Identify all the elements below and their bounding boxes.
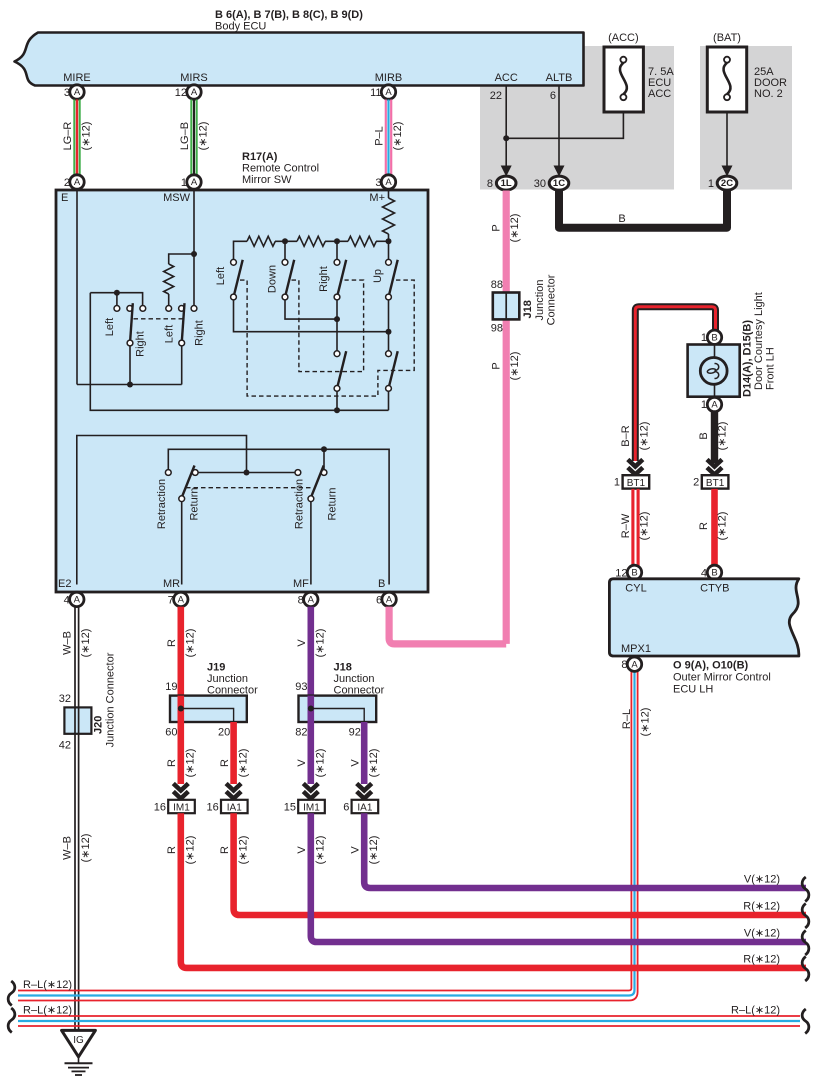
svg-text:IG: IG	[73, 1035, 84, 1046]
dashed linkage Left-Up-lower switch 2	[240, 280, 414, 396]
svg-text:BT1: BT1	[627, 478, 646, 489]
arrow into 16 IA1	[207, 784, 248, 814]
svg-text:16: 16	[207, 802, 219, 814]
svg-text:92: 92	[349, 726, 361, 738]
retraction inner contact line	[192, 470, 300, 476]
svg-text:IM1: IM1	[173, 803, 190, 814]
svg-text:Junction Connector: Junction Connector	[105, 652, 117, 747]
svg-text:1: 1	[614, 477, 620, 489]
brace right wire V1	[802, 877, 809, 902]
svg-text:R–L(∗12): R–L(∗12)	[23, 1005, 72, 1017]
pin 1 connector B courtesy light top	[701, 330, 722, 344]
retraction switch MR	[156, 466, 201, 530]
svg-text:V(∗12): V(∗12)	[744, 873, 780, 885]
svg-text:B: B	[631, 568, 637, 579]
switch Left (mirror select group)	[215, 259, 243, 300]
svg-text:2: 2	[693, 477, 699, 489]
wire R IM1 down to horizontal	[166, 813, 806, 968]
svg-text:Junction: Junction	[334, 673, 375, 685]
svg-text:(∗12): (∗12)	[80, 834, 92, 863]
wire P pink B pin to P vertical	[389, 607, 506, 644]
svg-text:(∗12): (∗12)	[185, 629, 197, 658]
wire from fuse 7.5A to ACC line	[506, 112, 623, 138]
svg-text:98: 98	[491, 323, 503, 335]
svg-text:LG–R: LG–R	[62, 122, 74, 151]
pin 1 connector A courtesy light bottom	[701, 397, 722, 411]
svg-text:8: 8	[487, 178, 493, 190]
junction connector J19	[165, 662, 258, 739]
switch Down	[267, 259, 295, 300]
svg-text:Junction: Junction	[534, 280, 546, 321]
wire R BT1 to CTYB	[698, 489, 729, 566]
fuse 25A DOOR NO.2	[707, 32, 787, 112]
arrow into 6 IA1	[343, 784, 378, 814]
svg-text:B: B	[618, 213, 625, 225]
pin 3 connector A MIRE	[64, 85, 84, 99]
svg-text:R(∗12): R(∗12)	[743, 953, 780, 965]
svg-text:20: 20	[218, 726, 230, 738]
svg-text:A: A	[74, 595, 81, 606]
arrow into 2 BT1	[693, 460, 728, 489]
svg-text:A: A	[308, 595, 315, 606]
svg-text:MSW: MSW	[163, 192, 191, 204]
svg-text:J18: J18	[522, 300, 534, 318]
svg-text:J20: J20	[93, 716, 105, 734]
svg-text:32: 32	[59, 693, 71, 705]
wire Down pivot to lower switch 1	[285, 300, 340, 351]
switch Right (up-down group)	[318, 259, 346, 300]
svg-text:Outer Mirror Control: Outer Mirror Control	[673, 672, 771, 684]
wire R MR to J19	[166, 607, 197, 696]
svg-text:16: 16	[154, 802, 166, 814]
resistor M+	[383, 190, 395, 242]
svg-text:(∗12): (∗12)	[315, 749, 327, 778]
svg-text:NO. 2: NO. 2	[754, 88, 783, 100]
svg-text:A: A	[191, 177, 198, 188]
svg-text:P–L: P–L	[374, 126, 386, 146]
wire V J18-82 to IM1	[296, 722, 327, 784]
brace right wire R1	[802, 904, 809, 929]
svg-text:V: V	[349, 846, 361, 854]
svg-text:R17(A): R17(A)	[242, 151, 278, 163]
svg-text:R: R	[698, 522, 710, 530]
svg-text:MR: MR	[163, 578, 180, 590]
pin 8 connector A MF	[293, 578, 318, 607]
node MIRB	[375, 72, 403, 84]
wire B black courtesy light to BT1	[698, 412, 729, 463]
svg-text:(∗12): (∗12)	[81, 122, 93, 151]
svg-text:(∗12): (∗12)	[198, 122, 210, 151]
svg-text:42: 42	[59, 740, 71, 752]
svg-text:Right: Right	[135, 331, 147, 357]
svg-text:2C: 2C	[721, 178, 733, 189]
svg-text:ALTB: ALTB	[546, 72, 573, 84]
svg-text:Right: Right	[318, 266, 330, 292]
svg-text:ACC: ACC	[495, 72, 518, 84]
node MIRS	[180, 72, 208, 84]
pin 1 connector A MSW	[163, 175, 201, 204]
node ACC	[495, 72, 518, 84]
svg-text:Connector: Connector	[546, 274, 558, 325]
svg-text:(∗12): (∗12)	[368, 836, 380, 865]
wire MR pivot to pin	[181, 502, 183, 585]
svg-text:D14(A), D15(B): D14(A), D15(B)	[742, 320, 754, 397]
wire V IM1 down to horizontal	[296, 813, 806, 942]
svg-text:B: B	[711, 332, 717, 343]
wire V IA1 down to horizontal	[349, 813, 806, 888]
svg-text:R: R	[166, 846, 178, 854]
svg-text:12: 12	[175, 87, 187, 99]
node ALTB	[546, 72, 573, 84]
outer mirror control ECU MPX1 block	[609, 579, 798, 656]
pin 11 connector A MIRB	[370, 85, 396, 99]
svg-text:MIRE: MIRE	[63, 72, 91, 84]
pin 4 connector B CTYB	[701, 565, 722, 579]
svg-text:(∗12): (∗12)	[509, 352, 521, 381]
svg-text:(∗12): (∗12)	[640, 708, 652, 737]
wire B-R courtesy light to BT1	[620, 307, 716, 461]
retraction switch MF	[294, 466, 339, 530]
svg-text:Up: Up	[372, 269, 384, 283]
pin 4 connector A E2	[58, 578, 84, 607]
pin 12 connector A MIRS	[175, 85, 201, 99]
svg-text:(∗12): (∗12)	[717, 512, 729, 541]
svg-text:E: E	[61, 192, 68, 204]
svg-text:Junction: Junction	[207, 673, 248, 685]
svg-text:MIRS: MIRS	[180, 72, 208, 84]
svg-text:11: 11	[370, 87, 381, 99]
svg-text:V(∗12): V(∗12)	[744, 927, 780, 939]
svg-text:ECU LH: ECU LH	[673, 684, 713, 696]
connector 30 1C	[534, 176, 569, 190]
svg-text:A: A	[385, 177, 392, 188]
svg-text:Right: Right	[194, 320, 206, 346]
svg-text:V: V	[296, 639, 308, 647]
svg-text:88: 88	[491, 279, 503, 291]
svg-text:B: B	[698, 432, 710, 439]
svg-text:1L: 1L	[501, 178, 512, 189]
svg-text:(BAT): (BAT)	[713, 32, 741, 44]
ground IG	[62, 1030, 96, 1075]
svg-text:R: R	[219, 846, 231, 854]
svg-text:O 9(A), O10(B): O 9(A), O10(B)	[673, 660, 749, 672]
svg-text:Mirror SW: Mirror SW	[242, 174, 292, 186]
brace right R-L group 2	[802, 1009, 809, 1034]
svg-text:R: R	[166, 759, 178, 767]
svg-text:IA1: IA1	[227, 803, 242, 814]
wire LG-B MIRS to mirror switch	[179, 100, 210, 175]
brace right wire V2	[802, 931, 809, 956]
svg-text:6: 6	[343, 802, 349, 814]
svg-text:Left: Left	[164, 325, 176, 343]
switch select 2 Left/Right	[164, 303, 206, 346]
resistor chain top	[234, 236, 389, 262]
svg-text:P: P	[490, 224, 502, 231]
svg-text:(∗12): (∗12)	[315, 629, 327, 658]
svg-text:(∗12): (∗12)	[185, 836, 197, 865]
junction connector J18	[295, 662, 384, 739]
svg-text:15: 15	[284, 802, 296, 814]
dashed linkage select switches	[134, 318, 184, 320]
arrow into 15 IM1	[284, 784, 325, 814]
svg-text:MF: MF	[293, 578, 309, 590]
wire select pivots to E bus	[77, 346, 182, 388]
svg-text:W–B: W–B	[62, 631, 74, 655]
svg-text:A: A	[191, 87, 198, 98]
svg-text:(∗12): (∗12)	[368, 749, 380, 778]
svg-text:W–B: W–B	[62, 836, 74, 860]
dashed linkage Down-Right-lower switch 1	[292, 280, 364, 372]
pin 6 wire ALTB into fuse block	[550, 86, 565, 177]
wire P from 1L to junction J18 small	[490, 191, 521, 644]
svg-text:B 6(A), B 7(B), B 8(C), B 9(D): B 6(A), B 7(B), B 8(C), B 9(D)	[215, 9, 363, 21]
svg-text:ACC: ACC	[648, 88, 671, 100]
junction dot on ACC line	[503, 135, 509, 141]
svg-text:Body ECU: Body ECU	[215, 21, 266, 33]
dashed linkage retraction switches	[186, 487, 311, 489]
connector 8 1L	[487, 176, 516, 190]
node MIRE	[63, 72, 91, 84]
lower switch 1	[334, 351, 346, 391]
svg-text:A: A	[386, 595, 393, 606]
wire R J19-20 to IA1	[219, 722, 250, 784]
pin 7 connector A MR	[163, 578, 188, 607]
fuse block gray area ACC	[480, 46, 674, 190]
lower switch 2	[386, 351, 398, 391]
svg-text:A: A	[711, 400, 718, 411]
svg-text:A: A	[74, 177, 81, 188]
wire R-L MPX1 to horizontal run	[18, 671, 652, 1000]
svg-text:30: 30	[534, 178, 546, 190]
wire lower switches to bus	[90, 293, 388, 414]
body ECU B 6(A), B 7(B), B 8(C), B 9(D)	[15, 9, 584, 86]
door courtesy light D14(A) D15(B) front LH	[688, 292, 777, 397]
junction connector J20	[59, 652, 117, 751]
pin 12 connector B CYL	[615, 565, 641, 579]
svg-text:MIRB: MIRB	[375, 72, 403, 84]
junction dots resistor chain	[282, 238, 392, 259]
svg-text:V: V	[349, 759, 361, 767]
arrow into 1 BT1	[614, 460, 649, 489]
svg-text:6: 6	[550, 90, 556, 102]
svg-text:(ACC): (ACC)	[608, 32, 639, 44]
svg-text:M+: M+	[369, 192, 385, 204]
fuse block gray area BAT	[700, 46, 792, 190]
svg-text:CTYB: CTYB	[700, 583, 729, 595]
wire R J19-60 to IM1	[166, 722, 197, 784]
wire V MF to J18	[296, 607, 327, 696]
svg-text:A: A	[178, 595, 185, 606]
svg-text:MPX1: MPX1	[621, 643, 651, 655]
wire B to retraction feed line	[165, 446, 389, 584]
svg-text:B–R: B–R	[620, 425, 632, 446]
svg-text:P: P	[490, 362, 502, 369]
svg-text:LG–B: LG–B	[179, 122, 191, 150]
left select switch bus	[90, 290, 142, 306]
svg-text:1C: 1C	[553, 178, 565, 189]
svg-text:B: B	[711, 568, 717, 579]
svg-text:Down: Down	[267, 265, 279, 293]
svg-text:A: A	[631, 659, 638, 670]
svg-text:(∗12): (∗12)	[639, 422, 651, 451]
svg-text:J18: J18	[334, 662, 352, 674]
svg-text:19: 19	[165, 681, 177, 693]
svg-text:A: A	[74, 87, 81, 98]
wire R IA1 down to horizontal	[219, 813, 806, 915]
svg-text:(∗12): (∗12)	[237, 836, 249, 865]
svg-text:IA1: IA1	[357, 803, 372, 814]
junction MSW branch	[191, 251, 197, 257]
svg-text:R–L(∗12): R–L(∗12)	[731, 1005, 780, 1017]
resistor MSW branch	[164, 254, 194, 306]
connector 1 2C	[708, 176, 737, 190]
brace right wire R2	[802, 957, 809, 982]
svg-text:Front LH: Front LH	[765, 347, 777, 390]
wire MSW internal	[193, 190, 195, 309]
wire LG-R MIRE to mirror switch	[62, 100, 93, 175]
svg-text:Remote Control: Remote Control	[242, 163, 319, 175]
svg-text:(∗12): (∗12)	[392, 122, 404, 151]
wire MF pivot to pin	[310, 502, 312, 585]
pin 8 connector A MPX1	[621, 657, 770, 696]
svg-text:Left: Left	[104, 318, 116, 336]
svg-text:60: 60	[165, 726, 177, 738]
brace left R-L group 1	[8, 981, 15, 1006]
brace left R-L group 2	[8, 1008, 15, 1033]
svg-text:R: R	[219, 759, 231, 767]
svg-text:82: 82	[295, 726, 307, 738]
svg-text:B: B	[378, 578, 385, 590]
svg-text:Return: Return	[327, 487, 339, 520]
svg-text:(∗12): (∗12)	[717, 422, 729, 451]
arrow into 16 IM1	[154, 784, 195, 814]
wire V J18-92 to IA1	[349, 722, 380, 784]
svg-text:Retraction: Retraction	[156, 479, 168, 529]
svg-text:R–L: R–L	[621, 709, 633, 729]
wire R-L bottom full width	[18, 1005, 800, 1027]
remote control mirror SW R17(A)	[56, 151, 428, 592]
fuse 7.5A ECU ACC	[604, 32, 674, 112]
svg-text:1: 1	[708, 178, 714, 190]
svg-text:Retraction: Retraction	[294, 479, 306, 529]
wire P-L MIRB to mirror switch	[374, 100, 405, 175]
wire E2 to retraction common	[77, 436, 247, 585]
svg-text:(∗12): (∗12)	[80, 629, 92, 658]
svg-text:E2: E2	[58, 578, 71, 590]
svg-text:J19: J19	[207, 662, 225, 674]
svg-text:(∗12): (∗12)	[315, 836, 327, 865]
svg-text:93: 93	[295, 681, 307, 693]
pin 3 connector A M+	[369, 175, 395, 204]
junction connector J18 small	[491, 274, 558, 334]
wire W-B E2 to J20 and ground	[62, 607, 93, 1031]
svg-text:IM1: IM1	[303, 803, 320, 814]
wire B black from 1C to 2C	[559, 191, 727, 228]
wire Left pivot to lower switch 2	[234, 300, 392, 351]
svg-text:R–L(∗12): R–L(∗12)	[23, 979, 72, 991]
pin 6 connector A B	[376, 578, 396, 607]
svg-text:R–W: R–W	[620, 513, 632, 538]
pin 2 connector A E	[61, 175, 84, 204]
switch Up	[372, 259, 398, 300]
svg-text:(∗12): (∗12)	[185, 749, 197, 778]
svg-text:V: V	[296, 759, 308, 767]
wire fuse 25A to 2C	[722, 112, 733, 177]
wire E internal	[76, 190, 78, 385]
switch select 1 Left/Right	[104, 303, 147, 357]
svg-text:22: 22	[490, 90, 502, 102]
svg-text:(∗12): (∗12)	[639, 512, 651, 541]
svg-text:R: R	[166, 639, 178, 647]
svg-text:A: A	[385, 87, 392, 98]
svg-text:(∗12): (∗12)	[237, 749, 249, 778]
svg-text:R(∗12): R(∗12)	[743, 901, 780, 913]
svg-text:V: V	[296, 846, 308, 854]
svg-text:BT1: BT1	[706, 478, 725, 489]
wire R-W BT1 to CYL	[620, 489, 651, 566]
svg-text:CYL: CYL	[625, 583, 646, 595]
svg-text:Return: Return	[189, 487, 201, 520]
pin 22 wire ACC into fuse block	[490, 86, 512, 177]
svg-text:(∗12): (∗12)	[509, 214, 521, 243]
svg-text:Door Courtesy Light: Door Courtesy Light	[753, 292, 765, 390]
svg-text:Left: Left	[215, 267, 227, 285]
